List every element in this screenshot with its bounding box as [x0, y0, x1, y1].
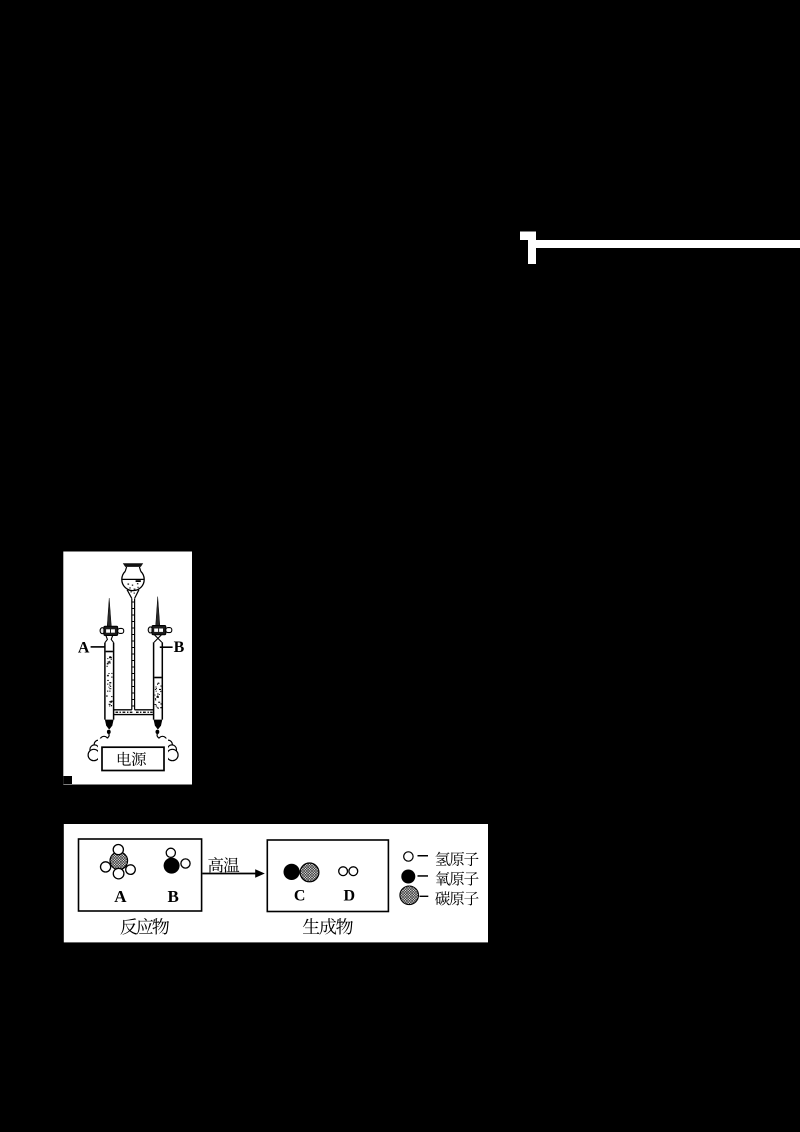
legend hydrogen symbol — [404, 852, 413, 861]
funnel stem walls — [132, 599, 135, 710]
legend 氢原子 — [436, 852, 479, 866]
legend 氧原子 — [436, 871, 479, 885]
molecule B hydrogens — [166, 848, 190, 868]
svg-text:A: A — [78, 639, 90, 656]
funnel neck — [125, 567, 141, 572]
right electrode — [154, 720, 163, 730]
funnel cap — [123, 563, 143, 567]
right electrode droplet — [156, 730, 160, 734]
left wire — [107, 734, 109, 739]
left stopcock needle — [107, 598, 111, 626]
left tube neck — [105, 636, 114, 643]
right gas tube — [154, 642, 163, 719]
svg-text:C: C — [294, 887, 306, 904]
molecule C oxygen — [284, 864, 300, 880]
molecule A hydrogens — [101, 845, 136, 879]
left electrode — [105, 720, 114, 730]
channel stipple dashes — [116, 712, 153, 713]
right tube liquid surface — [154, 677, 161, 679]
bulb stipple dots — [128, 583, 139, 593]
legend oxygen symbol — [401, 870, 415, 884]
right tube liquid stipple — [154, 683, 162, 709]
svg-text:B: B — [174, 639, 185, 656]
power supply box — [102, 747, 164, 770]
products box — [267, 840, 388, 912]
legend 碳原子 — [435, 891, 478, 905]
label 电源 — [118, 752, 146, 766]
label B dash — [160, 646, 173, 648]
right stopcock body — [148, 626, 172, 635]
molecule B oxygen — [164, 858, 180, 874]
connecting channel — [114, 710, 154, 715]
reaction arrow — [202, 873, 256, 875]
legend carbon symbol — [400, 886, 419, 905]
left gas tube — [105, 643, 114, 720]
left stopcock body — [100, 626, 124, 635]
electrolysis figure white panel — [63, 552, 192, 785]
bulb liquid line — [122, 578, 143, 580]
left electrode droplet — [107, 730, 111, 734]
caption 反应物 — [120, 918, 169, 935]
black notch bottom-left of panel — [63, 776, 72, 784]
bulb liquid dark dash — [136, 580, 141, 582]
molecule D hydrogens — [339, 867, 358, 876]
label 高温 — [208, 857, 239, 872]
molecule C carbon — [300, 863, 319, 882]
left tube liquid stipple — [106, 656, 113, 706]
svg-text:A: A — [114, 887, 127, 906]
molecule diagram white panel — [64, 824, 488, 942]
right stopcock needle — [156, 597, 160, 626]
right wire — [157, 734, 159, 739]
funnel cone to stem — [127, 590, 139, 599]
white tick-and-line mark top right — [520, 232, 800, 265]
cloud base — [88, 736, 178, 760]
reactants box — [79, 839, 202, 911]
label A dash — [91, 646, 105, 648]
molecule A carbon center — [110, 852, 128, 870]
left tube liquid surface — [106, 651, 113, 653]
right tube pinch neck — [154, 635, 162, 643]
funnel bulb — [122, 571, 144, 590]
caption 生成物 — [303, 918, 353, 935]
stem graduation ticks — [132, 602, 135, 706]
svg-text:B: B — [168, 887, 179, 906]
svg-text:D: D — [344, 887, 356, 904]
